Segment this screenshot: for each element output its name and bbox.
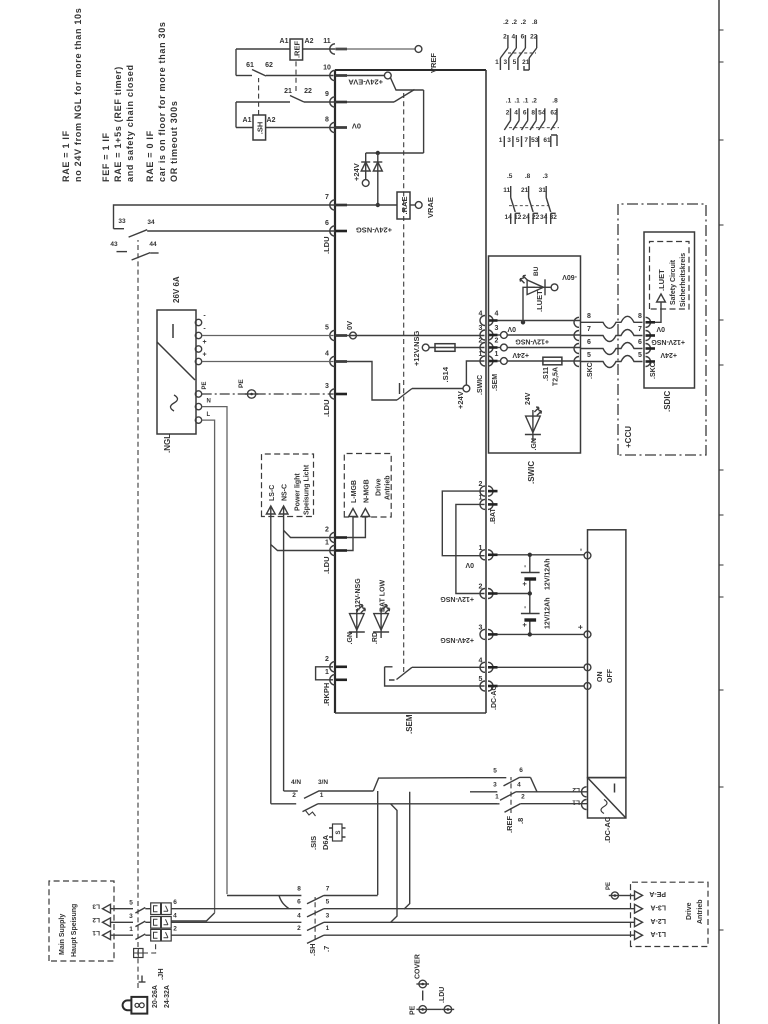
svg-text:.SIS: .SIS — [309, 836, 318, 850]
svg-text:.RD: .RD — [372, 632, 379, 644]
svg-text:4: 4 — [495, 311, 499, 318]
svg-text:0V: 0V — [465, 561, 474, 568]
svg-text:PE: PE — [410, 1005, 417, 1015]
wire ON — [498, 666, 585, 668]
svg-text:+24V-EVA: +24V-EVA — [348, 78, 383, 87]
svg-text:and safety chain closed: and safety chain closed — [125, 64, 135, 182]
svg-text:7: 7 — [638, 326, 642, 333]
svg-text:.RAE: .RAE — [400, 197, 409, 215]
svg-text:-60V: -60V — [562, 273, 577, 280]
svg-text:.DC-AC: .DC-AC — [491, 686, 498, 711]
cables SKC wiggle — [581, 356, 643, 368]
svg-text:8: 8 — [325, 117, 329, 124]
svg-text:.SWIC: .SWIC — [477, 375, 484, 395]
PE symbol LDU — [444, 1006, 452, 1014]
svg-text:T2,5A: T2,5A — [553, 367, 560, 386]
contactor SH pole 2-1 — [171, 934, 301, 936]
svg-text:LS-C: LS-C — [269, 485, 276, 501]
svg-text:.LDU: .LDU — [322, 557, 331, 575]
svg-text:1: 1 — [129, 926, 133, 933]
SIS symbol box — [333, 824, 343, 841]
svg-text:4: 4 — [325, 351, 329, 358]
svg-text:2: 2 — [495, 338, 499, 345]
DCAC terminal L2 — [582, 787, 587, 797]
svg-text:22: 22 — [530, 34, 538, 41]
svg-text:Antrieb: Antrieb — [385, 476, 392, 501]
wire +24V to battery — [498, 633, 585, 635]
terminal +12V.NSG — [422, 344, 429, 351]
contact 21-22 of REF — [290, 96, 304, 103]
label 0V pin8 — [335, 127, 347, 129]
svg-text:4/N: 4/N — [291, 779, 301, 786]
svg-text:6: 6 — [638, 339, 642, 346]
svg-text:61: 61 — [543, 137, 551, 144]
svg-text:7: 7 — [524, 137, 528, 144]
svg-text:0V: 0V — [507, 325, 516, 332]
svg-text:.LDU: .LDU — [439, 987, 446, 1003]
svg-text:OFF: OFF — [607, 668, 614, 683]
NGL DC symbol — [172, 324, 174, 338]
PE symbol main — [419, 1006, 427, 1014]
svg-text:1: 1 — [495, 794, 499, 801]
safety circuit dashed box — [650, 242, 690, 310]
wire pin1 jog to LS-C — [271, 545, 335, 551]
wire pin4 into box — [335, 362, 397, 401]
wire NGL plus to pin4 — [202, 361, 334, 363]
mech link REF dashed — [510, 777, 512, 813]
svg-text:+24V-NSG: +24V-NSG — [356, 226, 392, 235]
svg-text:Main Supply: Main Supply — [59, 914, 66, 955]
contact 33-34 JH aux — [114, 228, 125, 230]
connector .LDU pin 1 — [330, 545, 335, 555]
svg-text:0V: 0V — [656, 325, 665, 332]
wire pin5 net — [385, 667, 485, 686]
svg-text:PE: PE — [238, 379, 245, 388]
svg-text:1: 1 — [320, 792, 324, 799]
svg-text:1: 1 — [499, 137, 503, 144]
svg-text:12: 12 — [514, 214, 522, 221]
svg-text:N-MGB: N-MGB — [363, 479, 370, 503]
svg-text:7: 7 — [325, 194, 329, 201]
svg-text:.SH: .SH — [308, 943, 317, 956]
terminal +24V internal — [463, 385, 470, 392]
svg-text:+12V-NSG: +12V-NSG — [651, 338, 685, 345]
svg-text:7: 7 — [587, 326, 591, 333]
DCAC terminal L1 — [582, 800, 587, 810]
contactor SH pole 4-3 — [171, 921, 301, 923]
SIS thermal hook — [306, 811, 316, 817]
breaker JH pole1 — [111, 908, 134, 910]
svg-text:.7: .7 — [322, 946, 331, 952]
connector .SKC SDIC side — [646, 357, 651, 367]
breaker JH pole2 — [111, 921, 134, 923]
wire BAT pin1 loop — [456, 504, 485, 593]
svg-text:62: 62 — [550, 110, 558, 117]
LED GN 12V sem — [356, 632, 358, 639]
connector .LDU pin 2 — [330, 532, 335, 542]
svg-text:.REF: .REF — [293, 41, 302, 59]
svg-text:Drive: Drive — [376, 478, 383, 496]
connector .LDU pin 7 — [330, 200, 335, 210]
wire pin11 rail — [236, 48, 290, 50]
svg-text:31: 31 — [539, 187, 547, 194]
svg-text:0V: 0V — [352, 122, 361, 131]
svg-text:.LDU: .LDU — [322, 400, 331, 418]
contact REF 1-2 — [470, 803, 500, 805]
connector .SKC SWIC side — [574, 357, 579, 367]
terminal LS-C — [266, 506, 275, 514]
contact SIS pole L — [271, 803, 296, 805]
wire pin9 rail upper — [236, 101, 290, 103]
svg-text:24-32A: 24-32A — [164, 985, 171, 1008]
svg-text:2: 2 — [173, 926, 177, 933]
wire cover to PE — [422, 991, 424, 1001]
svg-text:44: 44 — [149, 241, 157, 248]
SDIC unit box — [644, 232, 695, 388]
wire pin2 jog to NS-C — [284, 530, 335, 537]
terminal battery plus — [584, 631, 591, 638]
svg-text:car is on floor for more than: car is on floor for more than 30s — [157, 21, 167, 182]
power supply NGL box — [157, 310, 196, 434]
fuse S14 — [429, 347, 485, 349]
wire NGL minus to pin5 — [202, 335, 334, 337]
breaker JH pole3 — [111, 934, 134, 936]
svg-text:A1: A1 — [243, 117, 252, 124]
wire pin1 internal to L-MGB — [347, 517, 353, 551]
svg-text:53: 53 — [531, 137, 539, 144]
contact REF 3-4 — [470, 791, 497, 793]
wire BAT pin2 loop — [442, 491, 484, 556]
svg-text:.GN: .GN — [531, 438, 538, 450]
drive MGB dashed box — [344, 454, 391, 518]
svg-text:2: 2 — [521, 793, 525, 800]
svg-text:PE: PE — [606, 882, 612, 890]
svg-text:8: 8 — [587, 313, 591, 320]
connector .BAT pins — [480, 486, 485, 496]
svg-text:L2: L2 — [92, 916, 100, 923]
relay coil RAE — [397, 192, 410, 219]
svg-text:D6A: D6A — [321, 834, 330, 850]
svg-text:.S14: .S14 — [441, 366, 450, 382]
svg-text:22: 22 — [304, 88, 312, 95]
svg-text:2: 2 — [479, 584, 483, 591]
svg-text:-: - — [520, 565, 529, 568]
terminal L3 — [103, 904, 111, 913]
svg-text:A2: A2 — [305, 38, 314, 45]
connector .LDU pin 11 — [330, 44, 335, 54]
DCAC DC bar — [614, 784, 616, 793]
svg-text:21: 21 — [521, 187, 529, 194]
connector .LDU pin 10 — [330, 70, 335, 80]
svg-text:.SH: .SH — [256, 122, 265, 135]
wire 3N diagonal to REF5 — [373, 778, 470, 791]
svg-text:1: 1 — [325, 669, 329, 676]
contact REF 5-6 — [470, 777, 506, 779]
terminal L2 — [103, 918, 111, 927]
svg-text:no 24V from NGL for more than: no 24V from NGL for more than 10s — [73, 8, 83, 182]
svg-text:1: 1 — [479, 545, 483, 552]
svg-text:+24V: +24V — [660, 351, 677, 358]
contactor SH pole 8-7 — [227, 895, 301, 897]
svg-text:.1: .1 — [514, 98, 520, 105]
svg-text:3: 3 — [129, 913, 133, 920]
svg-text:.DC-AC: .DC-AC — [603, 816, 612, 843]
bend REF A to B — [531, 777, 538, 791]
diode D2 to pin7 rail — [377, 153, 379, 205]
svg-text:L3: L3 — [92, 903, 100, 910]
SWIC unit box — [489, 256, 581, 453]
battery B1 12V — [521, 572, 540, 574]
wire pin2 internal to N-MGB — [347, 517, 365, 538]
contact table group REF — [510, 108, 512, 120]
svg-text:.2: .2 — [531, 98, 537, 105]
wire contact to diode node — [423, 90, 425, 153]
svg-text:+24V: +24V — [512, 351, 529, 358]
svg-text:2: 2 — [503, 34, 507, 41]
SWIC rail +12V — [498, 347, 501, 349]
svg-text:6: 6 — [521, 34, 525, 41]
terminal L1-A — [635, 931, 643, 940]
contact SIS pole N — [284, 790, 298, 792]
svg-text:+12V.NSG: +12V.NSG — [412, 330, 421, 366]
svg-text:L1: L1 — [572, 799, 580, 806]
svg-text:A2: A2 — [267, 117, 276, 124]
JH magnetic elements — [161, 903, 171, 915]
connector battery pins 1-5 — [480, 550, 485, 560]
relay coil SH — [253, 115, 266, 140]
JH test box — [134, 949, 143, 958]
svg-text:Drive: Drive — [686, 902, 693, 920]
svg-text:RAE = 1 IF: RAE = 1 IF — [61, 130, 71, 182]
svg-text:+: + — [202, 339, 206, 346]
svg-text:Power light: Power light — [295, 473, 302, 511]
svg-text:NS-C: NS-C — [282, 484, 289, 501]
svg-text:9: 9 — [325, 91, 329, 98]
svg-text:6: 6 — [523, 110, 527, 117]
svg-text:.5: .5 — [507, 173, 513, 180]
svg-text:43: 43 — [110, 241, 118, 248]
svg-text:.NGL: .NGL — [163, 434, 172, 453]
svg-text:61: 61 — [246, 62, 254, 69]
svg-text:4: 4 — [511, 34, 515, 41]
svg-text:0V: 0V — [345, 321, 354, 330]
svg-text:.LDU: .LDU — [322, 237, 331, 255]
svg-text:12V/12Ah: 12V/12Ah — [545, 597, 552, 629]
connector .LDU pin 8 — [330, 122, 335, 132]
svg-text:4: 4 — [297, 912, 301, 919]
svg-text:4: 4 — [517, 781, 521, 788]
battery unit box — [588, 530, 626, 778]
wire +24V contact to terminal — [412, 388, 463, 390]
svg-text:21: 21 — [284, 88, 292, 95]
wire OFF — [498, 685, 585, 687]
svg-text:.LUET: .LUET — [535, 290, 544, 312]
svg-text:8: 8 — [531, 110, 535, 117]
svg-text:3: 3 — [479, 624, 483, 631]
svg-text:BAT LOW: BAT LOW — [380, 579, 387, 612]
svg-text:.SKC: .SKC — [650, 362, 657, 379]
svg-text:1: 1 — [325, 540, 329, 547]
terminal L1 — [103, 931, 111, 940]
contact RAE +24V — [397, 389, 412, 401]
svg-text:PE-A: PE-A — [649, 890, 666, 897]
svg-text:.SEM: .SEM — [405, 714, 414, 734]
svg-text:5: 5 — [516, 137, 520, 144]
connector .SEM/.SWIC pins 1-4 — [480, 356, 485, 366]
CCU frame dashdot — [618, 204, 706, 455]
svg-text:2: 2 — [506, 110, 510, 117]
svg-text:11: 11 — [323, 38, 331, 45]
svg-text:5: 5 — [587, 352, 591, 359]
svg-text:5: 5 — [326, 899, 330, 906]
PE symbol drive — [611, 892, 618, 899]
wire EVA to contact — [391, 78, 424, 90]
svg-text:5: 5 — [513, 59, 517, 66]
wire 0V rail pin5 to SEM conn pin3 — [335, 335, 485, 337]
svg-text:26V 6A: 26V 6A — [172, 276, 181, 303]
svg-text:8: 8 — [638, 313, 642, 320]
svg-text:.2: .2 — [512, 19, 518, 26]
wire PE down — [429, 1008, 442, 1010]
mech link SH to 61-62 dashed — [258, 78, 260, 115]
svg-text:+CCU: +CCU — [624, 426, 633, 448]
wire pin8 rail upper — [236, 127, 253, 129]
wire LUET terminal sdic — [655, 302, 661, 322]
svg-text:3: 3 — [325, 383, 329, 390]
wire top link pins 10-11 — [235, 49, 237, 76]
connector .LDU pin 3 — [330, 389, 335, 399]
connector .LDU pin 9 — [330, 97, 335, 107]
terminal N-MGB — [361, 509, 370, 517]
RKPH jumper — [316, 667, 333, 680]
svg-text:20-26A: 20-26A — [152, 985, 159, 1008]
mech link SH dashed — [314, 897, 316, 940]
svg-text:Antrieb: Antrieb — [697, 900, 704, 925]
wire pin11 to VREF — [335, 48, 415, 50]
svg-text:.REF: .REF — [505, 815, 514, 833]
svg-text:24V: 24V — [525, 392, 532, 405]
svg-text:.RKPH: .RKPH — [322, 683, 331, 706]
svg-text:L1-A: L1-A — [650, 930, 666, 937]
svg-text:N: N — [207, 399, 211, 405]
svg-text:22: 22 — [532, 214, 540, 221]
svg-text:+: + — [520, 622, 529, 627]
wire pin4 net contact — [412, 666, 485, 668]
LED GN 24V swic — [532, 434, 534, 441]
svg-text:Safety Circuit: Safety Circuit — [670, 259, 677, 305]
svg-text:3: 3 — [493, 782, 497, 789]
wire pin9 into box — [335, 101, 394, 103]
LED RD BATLOW sem — [380, 632, 382, 639]
mech link JH dashed long — [137, 240, 139, 988]
svg-text:Speisung Licht: Speisung Licht — [304, 464, 311, 515]
terminal +24V-EVA — [384, 72, 391, 79]
svg-text:BU: BU — [533, 266, 540, 276]
svg-text:21: 21 — [522, 59, 530, 66]
svg-text:6: 6 — [587, 339, 591, 346]
svg-text:.1: .1 — [523, 98, 529, 105]
node diode junction — [376, 151, 380, 155]
svg-text:4: 4 — [514, 110, 518, 117]
svg-text:4: 4 — [479, 657, 483, 664]
svg-text:1: 1 — [479, 494, 483, 501]
DC-AC inverter box — [588, 778, 626, 818]
svg-text:+24V: +24V — [456, 391, 465, 409]
battery B2 12V — [521, 613, 540, 615]
svg-text:4: 4 — [173, 913, 177, 920]
terminal L-MGB — [349, 509, 358, 517]
svg-text:L3-A: L3-A — [650, 904, 666, 911]
svg-text:2: 2 — [325, 527, 329, 534]
N crossover curve — [279, 896, 289, 909]
svg-text:5: 5 — [638, 352, 642, 359]
SEM module box — [334, 70, 336, 713]
svg-text:8: 8 — [297, 886, 301, 893]
terminal battery minus — [584, 552, 591, 559]
terminal +24V — [362, 180, 369, 187]
contactor SH pole 6-5 — [171, 908, 301, 910]
mech link RAE dashed — [403, 90, 405, 672]
JH test dashes — [143, 941, 156, 953]
svg-text:+24V: +24V — [352, 163, 361, 181]
svg-text:62: 62 — [265, 62, 273, 69]
JH thermal elements — [151, 903, 161, 915]
svg-text:11: 11 — [503, 187, 510, 194]
connector .LDU pin 4 — [330, 356, 335, 366]
wire SIS-L branch to L2A — [391, 804, 398, 923]
svg-text:4: 4 — [479, 311, 483, 318]
svg-text:.SKC: .SKC — [587, 362, 594, 379]
terminal L3-A — [635, 904, 643, 913]
svg-text:6: 6 — [297, 899, 301, 906]
svg-text:54: 54 — [538, 110, 546, 117]
svg-text:.GN: .GN — [347, 632, 354, 644]
svg-text:5: 5 — [325, 325, 329, 332]
svg-text:32: 32 — [550, 214, 558, 221]
terminal 0V pin5 — [350, 332, 357, 339]
svg-text:5: 5 — [479, 676, 483, 683]
svg-text:2: 2 — [479, 481, 483, 488]
wire cross to SH7 — [377, 791, 379, 895]
NGL diagonal — [157, 342, 195, 380]
wire pin6 rail upper — [147, 230, 335, 232]
terminal PE-A — [635, 891, 643, 900]
svg-text:1: 1 — [495, 351, 499, 358]
svg-text:COVER: COVER — [415, 954, 422, 979]
wire LED to -60V — [545, 286, 551, 288]
svg-text:7: 7 — [326, 886, 330, 893]
terminal VREF — [415, 46, 422, 53]
wire PE dashdot to pin3 — [202, 393, 334, 395]
svg-text:L-MGB: L-MGB — [351, 480, 358, 503]
wire pin10 rail upper — [236, 75, 252, 77]
svg-text:Haupt Speisung: Haupt Speisung — [71, 904, 78, 957]
svg-text:3/N: 3/N — [318, 779, 328, 786]
terminal L2-A — [635, 918, 643, 927]
svg-text:34: 34 — [540, 214, 548, 221]
contact 61-62 of SH — [252, 70, 266, 77]
wire pin7 rail upper — [114, 205, 336, 229]
svg-text:OR timeout 300s: OR timeout 300s — [169, 100, 179, 182]
svg-text:.SEM: .SEM — [492, 374, 499, 391]
svg-text:.3: .3 — [542, 173, 548, 180]
svg-text:2: 2 — [297, 925, 301, 932]
svg-text:.2: .2 — [503, 19, 509, 26]
svg-text:A1: A1 — [280, 38, 289, 45]
relay coil REF — [290, 39, 303, 60]
power light dashed box — [262, 454, 314, 517]
terminal NS-C — [279, 506, 288, 514]
